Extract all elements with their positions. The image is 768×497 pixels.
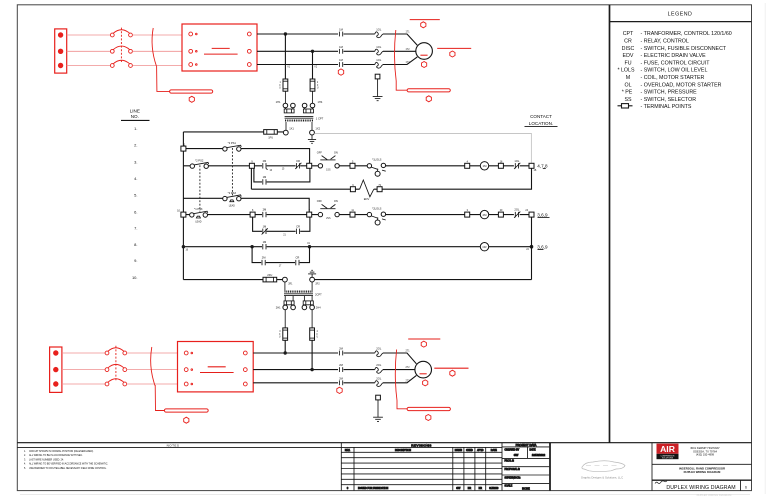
TB1 lug L3 (58, 63, 63, 68)
terminal 2R2 (310, 277, 315, 282)
TB1 lug L1 (58, 32, 63, 37)
wire 1OL-motor T1 (383, 34, 417, 45)
svg-text:- TRANFORMER, CONTROL 120/1/60: - TRANFORMER, CONTROL 120/1/60 (641, 31, 732, 37)
wire 1M-1OL pole1 (344, 33, 375, 35)
svg-text:FU: FU (624, 60, 631, 66)
rung6 wire (186, 214, 530, 216)
svg-text:OFF: OFF (317, 150, 323, 154)
svg-text:4,7,8: 4,7,8 (537, 164, 548, 169)
node A2 (tap V2) (311, 50, 314, 53)
PS1 linkage dashed (231, 148, 233, 196)
svg-text:7.: 7. (134, 226, 137, 231)
svg-text:- SWITCH, FUSIBLE DISCONNECT: - SWITCH, FUSIBLE DISCONNECT (641, 46, 727, 52)
fuse 1FU (264, 130, 278, 140)
node A1 (tap V1) (284, 32, 287, 35)
rung2 wire (186, 149, 310, 164)
drop V1 (284, 34, 286, 79)
svg-text:16: 16 (186, 250, 189, 252)
terminal 2 (307, 163, 312, 168)
terminal 1X2 (310, 130, 315, 135)
terminal 2H1 (283, 305, 288, 310)
transformer 2CPT core (284, 294, 313, 296)
fused disconnect box DISC (top) (182, 24, 257, 71)
svg-text:2M: 2M (339, 363, 343, 367)
svg-text:6.: 6. (134, 209, 137, 214)
conduit arc (bottom motor) (395, 350, 397, 401)
coil 2M (480, 210, 488, 218)
TB1 lug L2 (58, 49, 63, 54)
svg-text:CR: CR (296, 159, 300, 163)
motor M2 red mark (420, 373, 427, 375)
svg-text:3: 3 (279, 331, 281, 333)
wire 1OL-motor T2 (383, 50, 416, 52)
wire 2OL-motor T3 (383, 375, 416, 382)
pressure switch 1PS3 (lead) (190, 207, 208, 223)
svg-text:1B: 1B (534, 170, 537, 172)
svg-text:1M: 1M (483, 164, 488, 168)
power wire B2 (253, 369, 338, 371)
ground X2 symbol (308, 140, 316, 144)
svg-text:1H1: 1H1 (276, 100, 281, 104)
box2 terminal 1L (184, 351, 188, 355)
svg-text:2OL: 2OL (376, 376, 382, 380)
contact CR NC (rung3) (295, 163, 301, 169)
ground bus bar (bottom-left) (164, 409, 208, 412)
ground drop wire bottom (red) (155, 385, 164, 411)
ground bus bar (top motor) (407, 89, 450, 92)
svg-text:DISC: DISC (622, 46, 635, 52)
equip ground wire (top) (377, 79, 379, 97)
overload 2OL pole1 (375, 351, 383, 357)
svg-text:F: F (279, 334, 281, 336)
svg-text:ALL WIRING TO BE VERIFIED IN A: ALL WIRING TO BE VERIFIED IN ACCORDANCE … (29, 463, 108, 466)
conduit arc (top-left) (152, 28, 156, 66)
svg-text:U: U (317, 88, 319, 90)
svg-text:REV.: REV. (345, 450, 351, 452)
terminal 1H3 (302, 103, 307, 108)
svg-text:4.: 4. (24, 464, 26, 466)
ground bus bar (bottom motor) (407, 407, 450, 410)
rung5 wire (183, 198, 309, 212)
conduit arc (top motor) (394, 30, 396, 81)
svg-text:CR: CR (295, 256, 299, 260)
box2 fuse mark A (208, 366, 226, 368)
wire 1OL-motor T3 (383, 57, 417, 65)
svg-text:- SWITCH, SELECTOR: - SWITCH, SELECTOR (641, 97, 697, 103)
red markup line (above motor) (410, 19, 440, 21)
overload 1OL pole3 (375, 62, 383, 68)
svg-text:1M: 1M (339, 58, 343, 62)
pressure switch 2PS1 (223, 141, 242, 151)
svg-text:DUPLEX WIRING DIAGRAM: DUPLEX WIRING DIAGRAM (684, 470, 721, 474)
terminal 11 (350, 212, 355, 217)
svg-text:U: U (279, 88, 281, 90)
disconnect DISC1 pole 3 (110, 60, 132, 67)
wire 2H1 down (284, 310, 286, 328)
rung4 EDV wire (251, 168, 531, 189)
node rung8 a (250, 245, 253, 248)
svg-text:1OL: 1OL (376, 28, 382, 32)
svg-text:M: M (626, 75, 630, 81)
red jumper to motor bus (396, 81, 407, 90)
svg-text:1: 1 (280, 82, 282, 84)
terminal 5 (350, 163, 355, 168)
svg-text:* LOLS: * LOLS (617, 68, 635, 74)
conduit arc (bottom-left) (151, 347, 155, 386)
rung6 parallel drop (253, 217, 310, 231)
transformer 1CPT core (285, 116, 314, 118)
ground X2 wire (311, 135, 313, 140)
contact 1M pole3 (339, 62, 342, 67)
balloon (top motor bus) (426, 96, 431, 102)
svg-text:1OL: 1OL (514, 159, 520, 163)
title block frame (17, 443, 751, 491)
svg-text:DATE: DATE (530, 448, 536, 451)
box2 terminal 2L (184, 368, 188, 372)
balloon (below motor2) (423, 380, 428, 386)
svg-text:0: 0 (347, 488, 349, 490)
svg-text:1M: 1M (339, 28, 343, 32)
selector 1SS (317, 150, 340, 171)
contact 1M (seal-in) (263, 179, 266, 184)
svg-text:*2 PS3: *2 PS3 (228, 191, 237, 195)
svg-text:PROPOSAL #:: PROPOSAL #: (505, 468, 521, 471)
svg-text:NO.: NO. (131, 114, 139, 119)
svg-text:2OL: 2OL (376, 363, 382, 367)
wire 1M-1OL pole2 (344, 50, 375, 52)
svg-text:2T2: 2T2 (405, 367, 410, 369)
motor M1 red mark (420, 54, 427, 56)
transformer 2CPT primary winding (285, 291, 313, 293)
wire pole2 to box2 (127, 369, 178, 371)
svg-text:*2 PS2: *2 PS2 (195, 158, 204, 162)
svg-text:DESCRIPTION: DESCRIPTION (395, 450, 411, 452)
svg-text:U: U (317, 337, 319, 339)
svg-text:ON: ON (334, 199, 338, 203)
svg-text:3,6,9: 3,6,9 (537, 245, 548, 250)
svg-text:9.: 9. (134, 258, 137, 263)
grey feeder wire X2 to contact-location rail (314, 134, 531, 164)
svg-text:ISSUED FOR FABRICATION: ISSUED FOR FABRICATION (358, 487, 389, 490)
svg-text:2T3: 2T3 (405, 380, 410, 382)
line numbers 1-10 (132, 126, 138, 280)
svg-text:- RELAY, CONTROL: - RELAY, CONTROL (641, 39, 689, 45)
power wire A2 (257, 50, 338, 52)
svg-text:2T1: 2T1 (405, 351, 410, 353)
contact 1OL NC (rung3) (514, 163, 520, 169)
svg-text:DUPLEX WIRING DIAGRAM: DUPLEX WIRING DIAGRAM (697, 493, 733, 497)
svg-text:ON: ON (334, 150, 338, 154)
box fuse mark A (212, 47, 230, 49)
node rung8 rail (182, 245, 185, 248)
box terminal 1L (189, 32, 193, 36)
svg-text:CONTACT: CONTACT (530, 114, 552, 119)
disconnect DISC2 pole 1 (105, 348, 127, 355)
wire 2OL-motor T2 (383, 369, 415, 371)
wire fuseB to 1H4 (312, 91, 314, 103)
svg-text:1T3: 1T3 (405, 62, 410, 64)
svg-text:BR: BR (479, 488, 483, 490)
svg-text:CPT: CPT (623, 31, 634, 37)
wire L1 to disconnect2 (62, 352, 105, 354)
contact location 3,6,9 (537, 212, 549, 217)
svg-text:2OL: 2OL (514, 208, 520, 212)
svg-text:1H4: 1H4 (318, 100, 323, 104)
svg-text:LEAD: LEAD (229, 204, 235, 207)
balloon (right of motor2) (450, 370, 455, 376)
contact 1M (rung8) (263, 244, 266, 249)
contact CR (rung7) (296, 229, 299, 234)
line-number header (121, 109, 150, 121)
legend terminal-point symbol (618, 104, 633, 108)
svg-text:10/18/2022: 10/18/2022 (532, 453, 546, 457)
svg-text:DATE: DATE (491, 449, 497, 452)
svg-text:- TERMINAL POINTS: - TERMINAL POINTS (641, 104, 692, 110)
svg-text:F: F (317, 334, 319, 336)
svg-text:CR: CR (296, 224, 300, 228)
terminal 1H4 (310, 103, 315, 108)
terminal 10 (181, 212, 186, 217)
svg-text:6: 6 (745, 486, 747, 490)
svg-text:LOCATION.: LOCATION. (529, 121, 553, 126)
svg-text:2M: 2M (263, 208, 267, 212)
svg-text:17: 17 (279, 266, 282, 268)
svg-text:*1 PS3: *1 PS3 (194, 207, 203, 211)
fuse FU-B (310, 79, 315, 91)
wire pole1 to box2 (127, 352, 178, 354)
terminal 20 (498, 212, 503, 217)
fuse FU-A (283, 79, 288, 91)
svg-text:- COIL, MOTOR STARTER: - COIL, MOTOR STARTER (641, 75, 705, 81)
fuse FU-D (310, 328, 315, 340)
wire L2 to disconnect2 (62, 369, 105, 371)
svg-text:Graphic Designs & Solutions, L: Graphic Designs & Solutions, LLC (581, 476, 623, 480)
balloon under 2M pole3 (337, 387, 342, 393)
svg-text:AIR: AIR (660, 444, 676, 454)
legend box (610, 5, 752, 443)
power wire B3 (253, 382, 338, 384)
svg-text:PROJ. #:: PROJ. #: (505, 461, 515, 463)
svg-text:2: 2 (317, 82, 319, 84)
terminal 2H4 (310, 305, 315, 310)
power wire A1 (257, 33, 338, 35)
svg-text:SOLUTIONS: SOLUTIONS (662, 458, 674, 460)
wire 2M-2OL pole3 (344, 382, 375, 384)
svg-text:EDV: EDV (364, 197, 370, 201)
equip ground square (bottom) (376, 395, 381, 400)
svg-text:USE BARRIER TO ROUTE/LABEL NEC: USE BARRIER TO ROUTE/LABEL NECESSARY FIE… (29, 467, 107, 470)
TB2 lug L2 (53, 367, 58, 372)
rung10 wire (183, 279, 531, 281)
svg-text:V2: V2 (314, 67, 318, 69)
fuse FU-C (283, 328, 288, 340)
power wire A3 (257, 64, 338, 66)
svg-text:1M: 1M (263, 224, 267, 228)
PS2 linkage dashed (199, 165, 201, 211)
box terminal 2R (247, 49, 251, 53)
svg-text:3.: 3. (134, 160, 137, 165)
svg-text:OFF: OFF (317, 199, 323, 203)
balloon (bottom motor bus) (426, 415, 431, 421)
svg-text:3,6,9: 3,6,9 (537, 212, 548, 217)
terminal 8 (250, 212, 255, 217)
terminal 1H2 (291, 103, 296, 108)
svg-text:21: 21 (283, 235, 286, 237)
svg-text:SCALE: SCALE (505, 485, 513, 488)
balloon under 1M pole3 (338, 69, 343, 75)
drop V2 (312, 51, 314, 79)
DISC1 linkage (dashed) (120, 28, 122, 62)
svg-text:LEAD: LEAD (195, 221, 201, 224)
terminal 7 (307, 212, 312, 217)
wire L2 to disconnect (67, 50, 111, 52)
svg-text:*2LOLS: *2LOLS (372, 206, 381, 210)
svg-text:V1: V1 (287, 67, 291, 69)
svg-text:15: 15 (282, 169, 285, 171)
svg-text:2OL: 2OL (376, 347, 382, 351)
contact 2M pole3 (339, 380, 342, 385)
svg-text:GW: GW (514, 453, 519, 457)
power wire B1 (253, 352, 338, 354)
terminal 4 (465, 163, 470, 168)
float switch 2LOLS (367, 206, 386, 225)
balloon (bottom-left bus) (184, 417, 189, 423)
terminal block TB1 (incoming power, top) (55, 29, 67, 73)
svg-text:SUPERVISOR:: SUPERVISOR: (505, 477, 521, 479)
disconnect DISC1 pole 1 (110, 30, 132, 37)
contact 2M (rung6) (263, 212, 266, 217)
contact location header (525, 114, 558, 126)
contact 2M pole2 (339, 367, 342, 372)
ground bus bar (top-left) (170, 90, 213, 93)
wire 2M-2OL pole1 (344, 352, 375, 354)
box terminal 3L (189, 63, 193, 67)
overload 1OL pole1 (375, 32, 383, 38)
svg-text:1X2: 1X2 (315, 127, 320, 131)
svg-text:- ELECTRIC DRAIN VALVE: - ELECTRIC DRAIN VALVE (641, 53, 707, 59)
EDV solenoid (360, 180, 374, 197)
contact 1M pole2 (339, 49, 342, 54)
svg-text:1T1: 1T1 (405, 32, 410, 34)
gds logo block (551, 443, 653, 491)
contact 1M pole1 (339, 32, 342, 37)
svg-text:2R2: 2R2 (315, 283, 320, 285)
project data block (502, 443, 550, 491)
svg-text:19: 19 (307, 243, 310, 245)
TB2 lug L1 (53, 350, 58, 355)
wire L3 to disconnect2 (62, 383, 105, 385)
balloon (right of motor) (450, 51, 455, 57)
transformer 1CPT secondary winding (285, 119, 313, 121)
svg-text:NOTES: NOTES (167, 443, 180, 447)
ground above 2R2 (308, 270, 316, 277)
svg-text:SS: SS (624, 97, 632, 103)
rung3 wire (183, 165, 529, 167)
fused disconnect box DISC2 (178, 342, 254, 392)
svg-text:CHKD: CHKD (466, 450, 473, 452)
terminal 2H3 (302, 305, 307, 310)
terminal 9 (249, 163, 254, 168)
jumper link H3-H4 (303, 108, 313, 113)
motor M2 (415, 361, 432, 378)
svg-text:16: 16 (270, 170, 273, 172)
wire L1 to disconnect (67, 34, 111, 36)
svg-text:2.: 2. (134, 142, 137, 147)
svg-text:24: 24 (525, 210, 528, 212)
svg-text:2M: 2M (339, 376, 343, 380)
node rung8 b (308, 245, 311, 248)
svg-text:NONE: NONE (522, 487, 530, 491)
svg-text:5.: 5. (134, 192, 137, 197)
overload 1OL pole2 (375, 49, 383, 55)
jumper link 2H1-2H2 (284, 296, 294, 305)
svg-text:APVD: APVD (477, 449, 484, 452)
terminal 1X1 (283, 130, 288, 135)
terminal 2R1 (283, 277, 288, 282)
jumper link 2H3-2H4 (303, 296, 313, 305)
motor M1 (416, 43, 433, 60)
rung8 wire (183, 246, 531, 248)
rung3 parallel drop B (254, 168, 310, 182)
svg-text:LINE: LINE (130, 109, 140, 114)
transformer 2CPT primary stubs (285, 282, 312, 291)
svg-text:1OL: 1OL (376, 58, 382, 62)
rung3 parallel drop A (250, 168, 252, 189)
disconnect DISC2 pole 3 (105, 379, 127, 386)
svg-text:4.: 4. (134, 176, 137, 181)
balloon (above motor2) (421, 341, 426, 347)
svg-text:2R1: 2R1 (288, 283, 293, 285)
terminal 2H2 (291, 305, 296, 310)
svg-text:2H1: 2H1 (276, 305, 281, 309)
left rail (182, 132, 184, 280)
TB2 lug L3 (53, 381, 58, 386)
svg-text:*1LOLS: *1LOLS (372, 158, 381, 162)
svg-text:CR: CR (624, 39, 632, 45)
svg-text:ALL WIRING TO BE IN ACCORDANCE: ALL WIRING TO BE IN ACCORDANCE WITH NEC. (29, 454, 83, 457)
wire FU-D to bus (311, 340, 313, 369)
legend text (617, 31, 731, 110)
svg-text:2FU: 2FU (267, 273, 272, 277)
red markup line (above motor2) (408, 338, 440, 340)
balloon (above motor) (421, 22, 426, 28)
balloon (below motor) (422, 62, 427, 68)
svg-text:OL: OL (624, 82, 631, 88)
wire 2H4 down (311, 310, 313, 328)
svg-text:F: F (317, 85, 319, 87)
wire 1M-1OL pole3 (344, 64, 375, 66)
svg-text:1.: 1. (134, 126, 137, 131)
svg-text:U: U (279, 337, 281, 339)
svg-text:GW: GW (456, 488, 461, 490)
air logo block (652, 444, 752, 497)
svg-text:10.: 10. (132, 275, 138, 280)
svg-text:2SS: 2SS (326, 218, 331, 220)
svg-text:- SWITCH, LOW OIL LEVEL: - SWITCH, LOW OIL LEVEL (641, 68, 708, 74)
equip ground symbol (bottom) (373, 417, 383, 421)
wire pole3 to box (132, 65, 182, 67)
wire X2 stub (311, 122, 313, 130)
terminal block TB2 (incoming power, bottom) (50, 347, 62, 392)
svg-text:5.: 5. (24, 468, 26, 470)
red markup line (right of motor) (437, 47, 471, 49)
wire FU-C to bus (284, 340, 286, 353)
overload 2OL pole3 (375, 381, 383, 387)
wire pole2 to box (132, 50, 182, 52)
equip ground symbol (top) (373, 97, 383, 101)
node B2 (fuse drop) (310, 368, 313, 371)
svg-text:2CPT: 2CPT (315, 292, 322, 296)
